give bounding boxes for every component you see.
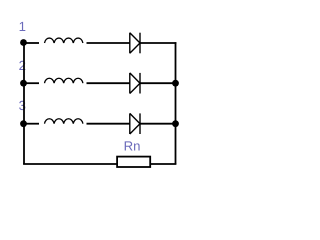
- wire branch3 left lead: [24, 123, 40, 125]
- inductor L3: [45, 119, 83, 124]
- wire branch3 middle lead: [87, 123, 130, 125]
- wire branch3 right lead: [140, 123, 176, 125]
- junction node 3: [20, 120, 27, 127]
- junction right node row2: [172, 80, 179, 87]
- wire bottom left segment: [23, 163, 117, 165]
- svg-text:1: 1: [19, 19, 26, 34]
- wire bottom right segment: [150, 163, 176, 165]
- diode D2: [130, 73, 140, 94]
- wire branch2 right lead: [140, 82, 176, 84]
- inductor L2: [45, 78, 83, 83]
- wire left vertical bus: [23, 42, 25, 164]
- diode D1: [130, 33, 140, 54]
- resistor Rn: [117, 157, 150, 167]
- wire branch2 left lead: [24, 82, 40, 84]
- inductor L1: [45, 38, 83, 43]
- wire right vertical bus: [175, 42, 177, 164]
- svg-text:Rn: Rn: [124, 138, 141, 153]
- wire branch1 left lead: [24, 42, 40, 44]
- diode D3: [130, 113, 140, 134]
- junction node 1: [20, 39, 27, 46]
- junction node 2: [20, 80, 27, 87]
- junction right node row3: [172, 120, 179, 127]
- wire branch1 right lead: [140, 42, 176, 44]
- wire branch2 middle lead: [87, 82, 130, 84]
- wire branch1 middle lead: [87, 42, 130, 44]
